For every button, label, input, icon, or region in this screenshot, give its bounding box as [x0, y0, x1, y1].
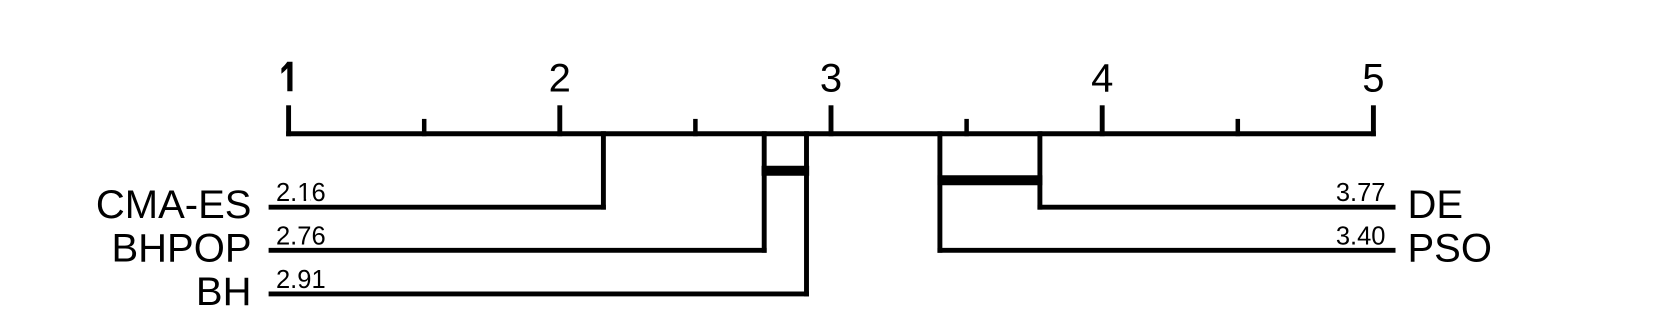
major tick 3 [829, 105, 834, 136]
svg-text:BH: BH [196, 270, 252, 314]
DE vertical line [1037, 131, 1042, 209]
svg-text:4: 4 [1091, 56, 1113, 100]
svg-text:2.91: 2.91 [276, 266, 326, 294]
major tick 1 [286, 105, 291, 136]
clique bar BHPOP-BH [762, 166, 810, 176]
BHPOP horizontal line [269, 248, 767, 253]
svg-text:3.77: 3.77 [1336, 179, 1386, 207]
svg-text:2.16: 2.16 [276, 179, 326, 207]
svg-text:BHPOP: BHPOP [111, 226, 251, 270]
CMA-ES vertical line [601, 131, 606, 209]
BH vertical line [804, 131, 809, 296]
BHPOP vertical line [762, 131, 767, 253]
minor tick 2.5 [693, 119, 698, 136]
CMA-ES horizontal line [269, 205, 606, 210]
PSO vertical line [937, 131, 942, 253]
svg-text:3: 3 [820, 56, 842, 100]
svg-text:5: 5 [1362, 56, 1384, 100]
svg-text:DE: DE [1408, 183, 1464, 227]
BH horizontal line [269, 291, 809, 296]
svg-text:3.40: 3.40 [1336, 222, 1386, 250]
minor tick 1.5 [422, 119, 427, 136]
axis label 1 (drawn as path, Arial-style without foot serif) [281, 62, 292, 92]
minor tick 3.5 [964, 119, 969, 136]
svg-text:PSO: PSO [1408, 226, 1492, 270]
clique bar PSO-DE [937, 175, 1042, 185]
major tick 5 [1371, 105, 1376, 136]
PSO horizontal line [937, 248, 1395, 253]
minor tick 4.5 [1236, 119, 1241, 136]
DE horizontal line [1037, 205, 1395, 210]
svg-text:CMA-ES: CMA-ES [96, 183, 252, 227]
svg-text:2.76: 2.76 [276, 222, 326, 250]
major tick 2 [557, 105, 562, 136]
axis line [286, 131, 1376, 136]
svg-text:2: 2 [549, 56, 571, 100]
major tick 4 [1100, 105, 1105, 136]
